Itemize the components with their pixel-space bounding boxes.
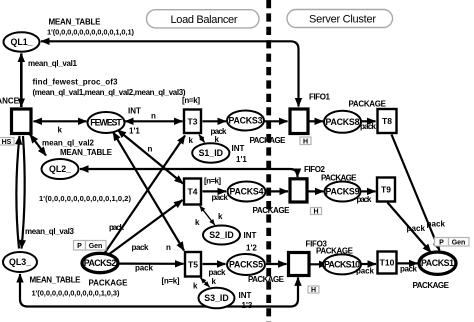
place PACKS10 bbox=[323, 254, 361, 274]
svg-text:PACKAGE: PACKAGE bbox=[89, 279, 129, 288]
svg-text:S3_ID: S3_ID bbox=[204, 293, 228, 303]
wire BALANCE to QL2 (bidirectional) bbox=[30, 135, 46, 156]
svg-text:MEAN_TABLE: MEAN_TABLE bbox=[30, 275, 82, 284]
svg-text:QL1_: QL1_ bbox=[10, 37, 32, 47]
wire FEWEST to T3 (bidirectional, label n) bbox=[125, 120, 183, 122]
place S3_ID bbox=[199, 288, 235, 309]
transition T9 bbox=[377, 178, 395, 202]
wire FIFO1 to PACKS8 bbox=[310, 120, 324, 122]
transition T5 bbox=[185, 252, 201, 277]
svg-text:PACKS3: PACKS3 bbox=[229, 116, 263, 126]
svg-text:PACKS5: PACKS5 bbox=[229, 260, 263, 270]
svg-text:k: k bbox=[189, 136, 194, 145]
svg-text:k: k bbox=[193, 282, 198, 291]
svg-text:PACKAGE: PACKAGE bbox=[349, 100, 387, 109]
wire QL1 to BALANCE (bidirectional) bbox=[20, 54, 23, 108]
wire FIFO3 to PACKS10 bbox=[310, 263, 328, 265]
svg-text:QL2_: QL2_ bbox=[49, 164, 71, 174]
svg-text:k: k bbox=[215, 135, 220, 144]
wire PACKS8 to T8 (label pack) bbox=[362, 120, 376, 122]
svg-text:pack: pack bbox=[360, 122, 377, 131]
place QL3_ bbox=[3, 252, 37, 272]
wire FEWEST to T4 (bidirectional, label n) bbox=[118, 130, 184, 184]
svg-text:PACKAGE: PACKAGE bbox=[413, 281, 450, 290]
svg-text:Load Balancer: Load Balancer bbox=[171, 14, 238, 26]
dashed separator line bbox=[266, 0, 271, 322]
svg-text:PACKS10: PACKS10 bbox=[324, 260, 360, 270]
svg-text:pack: pack bbox=[132, 243, 150, 252]
svg-text:H: H bbox=[303, 138, 308, 145]
tag H below FIFO1 bbox=[300, 137, 311, 145]
svg-text:PACKAGE: PACKAGE bbox=[321, 174, 357, 183]
transition BALANCE (substitution) bbox=[0, 97, 31, 134]
place PACKS5 bbox=[227, 254, 265, 275]
svg-text:INT: INT bbox=[128, 107, 141, 116]
svg-text:1'(0,0,0,0,0,0,0,0,0,0,1,0,3): 1'(0,0,0,0,0,0,0,0,0,0,1,0,3) bbox=[32, 288, 121, 297]
tag P Gen above PACKS1 bbox=[435, 238, 470, 247]
svg-text:T5: T5 bbox=[188, 259, 198, 269]
place PACKS3 bbox=[227, 111, 264, 131]
tag H below FIFO2 bbox=[311, 208, 322, 216]
svg-text:PACKS2: PACKS2 bbox=[84, 258, 117, 268]
frame Server Cluster bbox=[287, 10, 393, 28]
wire PACKS2 to T5 (label pack) bbox=[119, 263, 184, 265]
wire BALANCE to QL3 (curve pair) bbox=[16, 136, 19, 249]
svg-text:n: n bbox=[148, 145, 153, 154]
wire QL3 to FIFO3 (bidirectional, along bottom) bbox=[20, 274, 298, 307]
svg-text:pack: pack bbox=[400, 265, 418, 274]
svg-text:S2_ID: S2_ID bbox=[209, 230, 233, 240]
place QL1_ bbox=[4, 32, 40, 51]
place PACKS1 (bold) bbox=[419, 252, 456, 274]
place S1_ID bbox=[192, 143, 229, 162]
svg-text:k: k bbox=[212, 277, 217, 286]
svg-text:pack: pack bbox=[407, 224, 426, 233]
wire T8 to PACKS1 (label pack) bbox=[392, 135, 440, 251]
transition FIFO1 bbox=[290, 109, 308, 134]
svg-text:k: k bbox=[195, 218, 200, 227]
place PACKS4 bbox=[228, 182, 266, 202]
wire T4 to PACKS4 (label pack) bbox=[203, 190, 227, 192]
svg-text:INT: INT bbox=[244, 231, 257, 240]
svg-text:Gen: Gen bbox=[452, 240, 466, 247]
wire PACKS3 to FIFO1 bbox=[265, 120, 288, 122]
transition T10 bbox=[378, 252, 397, 274]
svg-text:PACKS4: PACKS4 bbox=[230, 187, 264, 197]
svg-text:1'3: 1'3 bbox=[242, 301, 253, 310]
svg-text:T8: T8 bbox=[382, 116, 392, 126]
wire T9 to PACKS1 (label pack) bbox=[388, 203, 432, 253]
svg-text:mean_ql_val1: mean_ql_val1 bbox=[28, 59, 78, 68]
svg-text:S1_ID: S1_ID bbox=[199, 148, 223, 158]
place FEWEST bbox=[88, 112, 125, 133]
place S2_ID bbox=[203, 226, 240, 245]
svg-text:INT: INT bbox=[232, 144, 245, 153]
wire PACKS9 to T9 (label pack) bbox=[361, 190, 376, 192]
svg-text:Gen: Gen bbox=[89, 243, 103, 250]
wire T10 to PACKS1 (label pack) bbox=[398, 262, 418, 264]
svg-text:P: P bbox=[77, 243, 82, 250]
svg-text:FEWEST: FEWEST bbox=[90, 118, 122, 128]
place PACKS9 bbox=[325, 182, 361, 202]
place QL2_ bbox=[42, 159, 79, 179]
svg-text:T3: T3 bbox=[188, 116, 198, 126]
wire PACKS10 to T10 (label pack) bbox=[362, 263, 377, 265]
transition FIFO2 bbox=[290, 179, 307, 202]
svg-text:pack: pack bbox=[209, 268, 227, 277]
svg-text:MEAN_TABLE: MEAN_TABLE bbox=[60, 148, 113, 157]
wire T5 to PACKS5 (label pack) bbox=[203, 263, 226, 265]
wire T3 to S1_ID (bidirectional, labels k k) bbox=[199, 135, 205, 143]
wire PACKS2 to T4 (label pack) bbox=[108, 200, 183, 255]
wire PACKS5 to FIFO3 bbox=[266, 263, 287, 265]
svg-text:PACKS8: PACKS8 bbox=[326, 117, 360, 127]
svg-text:1'1: 1'1 bbox=[236, 155, 247, 164]
svg-text:INT: INT bbox=[239, 291, 252, 300]
place PACKS2 (bold) bbox=[82, 253, 118, 272]
svg-text:[n=k]: [n=k] bbox=[204, 176, 221, 185]
svg-text:PACKAGE: PACKAGE bbox=[316, 247, 354, 256]
wire FIFO2 to PACKS9 bbox=[309, 190, 324, 192]
svg-text:T9: T9 bbox=[381, 185, 391, 195]
tag HS bbox=[0, 138, 14, 146]
svg-text:T4: T4 bbox=[188, 187, 198, 197]
svg-text:PACKS9: PACKS9 bbox=[326, 187, 360, 197]
svg-text:n: n bbox=[166, 243, 171, 252]
svg-text:QL3_: QL3_ bbox=[9, 257, 31, 267]
svg-text:k: k bbox=[218, 212, 223, 221]
svg-text:[n=k]: [n=k] bbox=[182, 96, 200, 105]
svg-text:MEAN_TABLE: MEAN_TABLE bbox=[49, 18, 102, 27]
svg-text:PACKAGE: PACKAGE bbox=[248, 275, 285, 284]
svg-text:pack: pack bbox=[212, 193, 229, 202]
wire FEWEST to T5 (bidirectional, label n) bbox=[113, 132, 184, 251]
svg-text:pack: pack bbox=[356, 267, 375, 276]
wire BALANCE to FEWEST (bidirectional, label k) bbox=[34, 120, 87, 122]
svg-text:pack: pack bbox=[109, 223, 125, 232]
wire T3 to PACKS3 (label pack) bbox=[203, 120, 227, 122]
svg-text:pack: pack bbox=[357, 195, 373, 204]
svg-text:FIFO1: FIFO1 bbox=[309, 93, 331, 102]
svg-text:n: n bbox=[151, 112, 156, 121]
transition T8 bbox=[378, 109, 397, 133]
wire QL2 to FIFO2 (bidirectional) bbox=[80, 169, 298, 177]
svg-text:(mean_ql_val1,mean_ql_val2,mea: (mean_ql_val1,mean_ql_val2,mean_ql_val3) bbox=[33, 88, 186, 97]
svg-text:BALANCE: BALANCE bbox=[0, 97, 20, 106]
svg-text:mean_ql_val2: mean_ql_val2 bbox=[42, 139, 95, 148]
svg-text:T10: T10 bbox=[380, 258, 395, 268]
svg-text:pack: pack bbox=[427, 220, 446, 229]
svg-text:[n=k]: [n=k] bbox=[162, 276, 180, 285]
wire PACKS2 to T3 (label pack) bbox=[104, 136, 185, 255]
svg-text:P: P bbox=[439, 240, 444, 247]
transition T4 bbox=[184, 179, 201, 205]
svg-text:mean_ql_val3: mean_ql_val3 bbox=[25, 227, 75, 236]
svg-text:PACKS1: PACKS1 bbox=[421, 258, 454, 268]
svg-text:pack: pack bbox=[135, 264, 154, 273]
wire QL1 to FIFO1 (bidirectional, bends at top) bbox=[41, 41, 299, 106]
wire T5 to S3_ID (bidirectional, labels k k) bbox=[201, 278, 210, 287]
svg-text:Server Cluster: Server Cluster bbox=[309, 14, 376, 26]
svg-text:1'2: 1'2 bbox=[246, 244, 257, 253]
tag P Gen above PACKS2 bbox=[74, 241, 107, 251]
transition T3 bbox=[184, 110, 201, 134]
tag H below FIFO3 bbox=[308, 286, 319, 294]
svg-text:1'1: 1'1 bbox=[129, 127, 140, 136]
frame Load Balancer bbox=[147, 10, 260, 28]
wire PACKS4 to FIFO2 bbox=[266, 190, 288, 192]
svg-text:H: H bbox=[311, 287, 316, 294]
wire T4 to S2_ID (bidirectional, labels k k) bbox=[200, 206, 215, 225]
svg-text:PACKAGE: PACKAGE bbox=[253, 206, 291, 215]
svg-text:1'(0,0,0,0,0,0,0,0,0,0,1,0,1): 1'(0,0,0,0,0,0,0,0,0,0,1,0,1) bbox=[47, 27, 135, 36]
transition FIFO3 bbox=[289, 253, 310, 276]
svg-text:H: H bbox=[313, 208, 318, 215]
svg-text:find_fewest_proc_of3: find_fewest_proc_of3 bbox=[33, 78, 119, 87]
svg-text:1'(0,0,0,0,0,0,0,0,0,0,1,0,2): 1'(0,0,0,0,0,0,0,0,0,0,1,0,2) bbox=[39, 194, 132, 203]
svg-text:k: k bbox=[58, 126, 63, 135]
svg-text:HS: HS bbox=[2, 139, 12, 146]
svg-text:PACKAGE: PACKAGE bbox=[250, 136, 287, 145]
place PACKS8 bbox=[324, 111, 361, 133]
